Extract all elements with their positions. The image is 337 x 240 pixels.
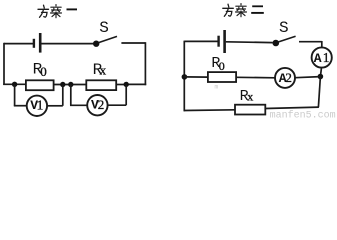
svg-text:m: m: [215, 84, 219, 91]
resistor Rx box (right circuit): [235, 105, 265, 115]
svg-text:A: A: [314, 51, 322, 66]
wire: battery to switch: [41, 43, 93, 45]
wire: A1 bottom stub to node: [320, 68, 321, 77]
label 方案二 : char 方: [223, 4, 234, 16]
voltmeter V1: [27, 96, 47, 116]
svg-text:S: S: [99, 19, 109, 37]
battery B2 short plate: [217, 36, 219, 47]
wire: left vertical: [3, 43, 5, 85]
switch S1 blade: [99, 36, 117, 42]
wire: V2 right leg: [125, 84, 127, 105]
wire: A2 to junction node: [295, 77, 320, 78]
wire: middle row left segment: [3, 83, 26, 85]
label 方案一 : char 案: [51, 5, 62, 18]
svg-text:0: 0: [219, 59, 225, 73]
svg-text:2: 2: [285, 70, 292, 85]
svg-text:x: x: [100, 63, 107, 78]
wire: bottom rail: [265, 107, 319, 108]
wire: bottom rail left of Rx: [184, 109, 235, 112]
node dot (left of R0): [12, 82, 17, 87]
svg-text:1: 1: [323, 50, 330, 65]
wire: V1 left horizontal: [14, 105, 27, 107]
wire: right side into node: [126, 83, 146, 85]
ammeter A1: [312, 47, 332, 67]
node dot (left, mid-row): [182, 74, 188, 80]
svg-text:S: S: [279, 19, 289, 37]
wire: V1 right leg: [62, 85, 64, 106]
wire: Rx to right node: [116, 84, 126, 86]
node dot (right of R0): [60, 82, 65, 87]
wire: stub down to A1: [321, 41, 323, 48]
svg-text:1: 1: [37, 97, 44, 112]
wire: V1 right horizontal: [47, 105, 63, 107]
wire: right vertical: [144, 42, 146, 85]
svg-text:2: 2: [98, 97, 105, 112]
resistor R0 box: [26, 80, 54, 90]
svg-text:0: 0: [40, 64, 47, 79]
wire: top-left segment to battery: [4, 43, 33, 45]
battery B2 long plate: [223, 30, 226, 53]
wire: left vertical: [183, 41, 185, 112]
wire: V2 left horizontal: [70, 104, 87, 106]
resistor R0 box (right circuit): [208, 72, 236, 82]
ammeter A2: [275, 68, 295, 88]
battery B1 short plate: [33, 39, 35, 48]
battery B1 long plate: [39, 33, 42, 53]
node dot (right, junction to V2 and supply): [124, 82, 129, 87]
switch S2 pivot dot: [273, 40, 280, 47]
wire: switch to top-right corner: [121, 42, 145, 44]
label 方案二 : char 案: [236, 4, 247, 17]
switch S2 blade: [278, 36, 295, 42]
label 方案一 : char 方: [38, 5, 49, 17]
label 方案一 : char 一: [67, 8, 78, 10]
voltmeter V2: [87, 95, 107, 115]
label 方案二 : char 二: [252, 5, 263, 7]
wire: right vertical lower: [318, 77, 320, 108]
resistor Rx box: [86, 80, 116, 90]
wire: R0 to A2: [236, 76, 275, 79]
svg-text:manfen5.com: manfen5.com: [270, 109, 336, 120]
wire: top-left segment to battery: [184, 40, 217, 42]
wire: battery to switch: [226, 41, 273, 44]
node dot (A1/A2 junction): [318, 74, 324, 80]
wire: V2 left leg: [70, 85, 72, 106]
switch S1 pivot dot: [93, 41, 99, 47]
wire: V2 right horizontal: [108, 104, 127, 106]
wire: switch to A1 corner: [299, 41, 322, 43]
wire: V1 left leg: [14, 84, 16, 105]
wire: between R0 and Rx: [54, 84, 87, 86]
wire: mid row to R0: [184, 76, 208, 78]
node dot (left of Rx): [68, 82, 73, 87]
svg-text:x: x: [247, 90, 253, 104]
